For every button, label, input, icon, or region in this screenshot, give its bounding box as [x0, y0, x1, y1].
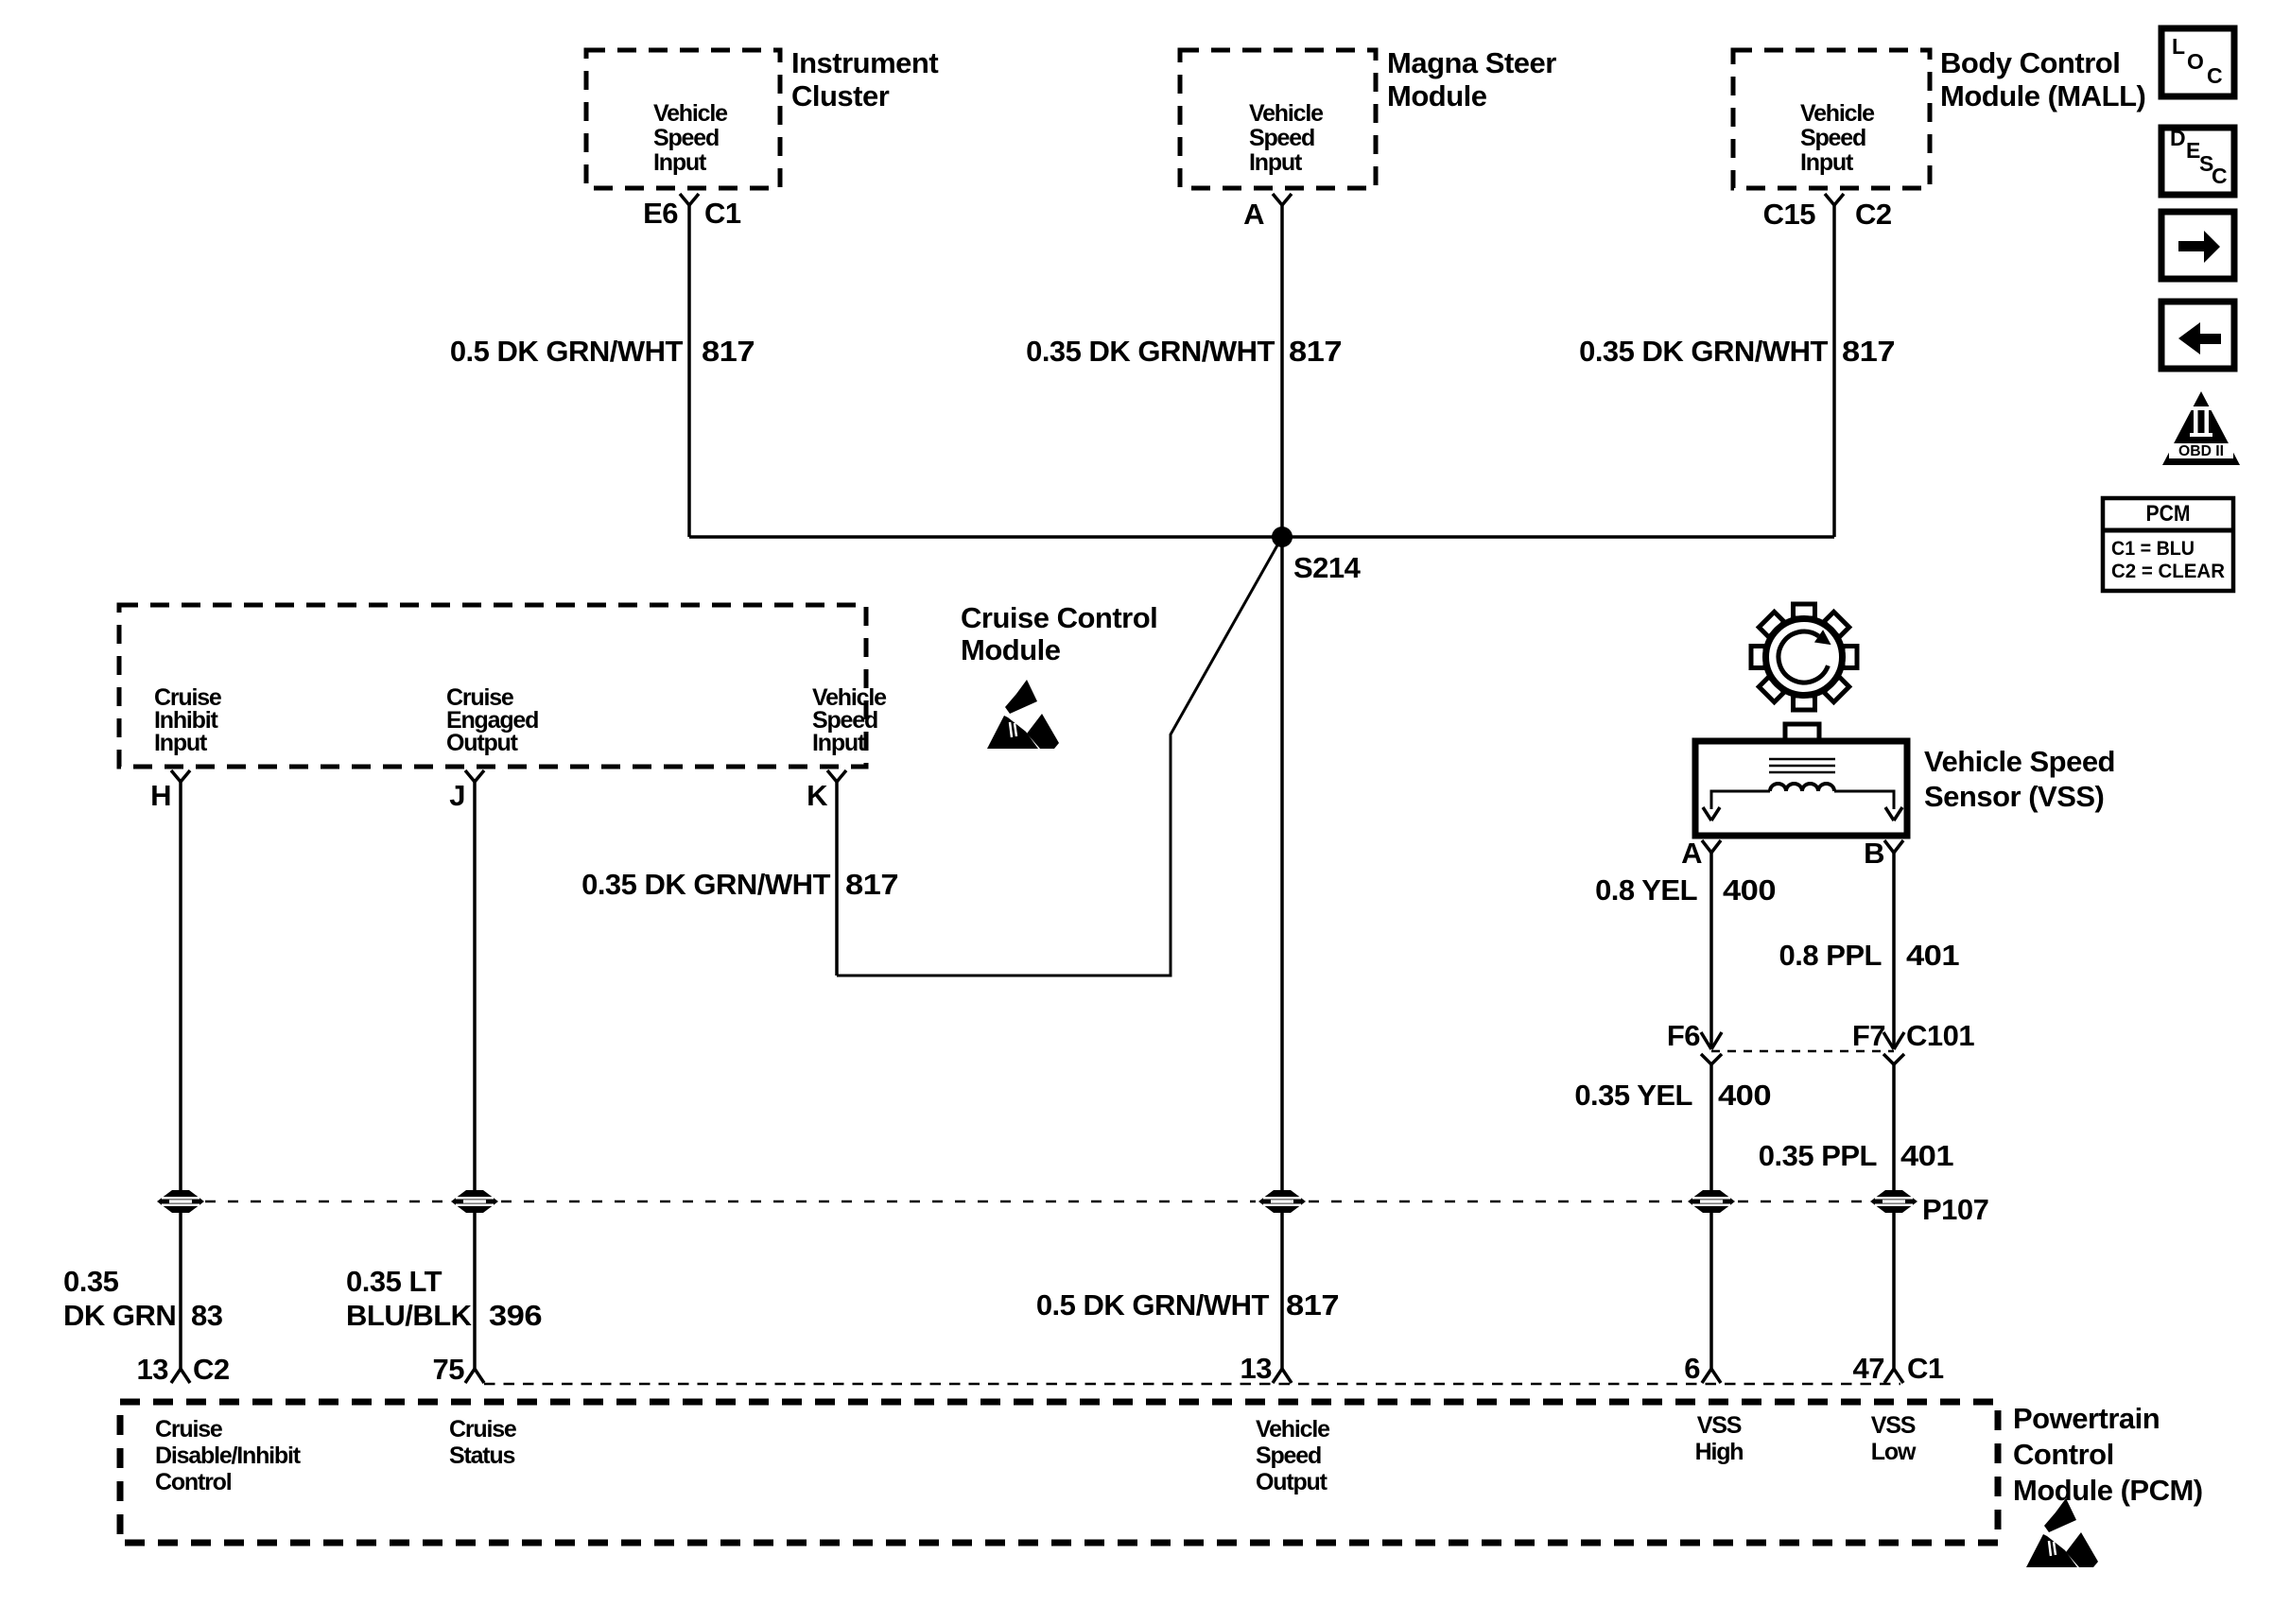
- VSS lead A arrowhead: [1703, 807, 1720, 821]
- svg-text:Input: Input: [154, 730, 208, 756]
- svg-text:A: A: [1243, 198, 1264, 231]
- VSS sensor box: [1695, 741, 1907, 836]
- svg-text:Speed: Speed: [653, 125, 719, 151]
- icon OBD II triangle: [2162, 391, 2240, 465]
- svg-text:C2: C2: [193, 1353, 230, 1386]
- wire 817 from Instrument Cluster E6: [687, 205, 691, 537]
- grommet P107 at 401 wire: [1870, 1190, 1917, 1213]
- pin Y connector C15 C2: [1825, 194, 1844, 205]
- svg-text:Input: Input: [653, 149, 707, 176]
- pin Y connector H: [171, 770, 190, 782]
- svg-text:Vehicle: Vehicle: [1800, 100, 1875, 127]
- VSS core lines: [1769, 759, 1835, 772]
- svg-text:Speed: Speed: [1800, 125, 1865, 151]
- wire 396 cruise J to PCM 75: [473, 782, 477, 1369]
- VSS lead A: [1711, 791, 1770, 809]
- connector P107 dashed line: [205, 1201, 448, 1203]
- wire 817 main vertical to PCM pin 13: [1280, 537, 1284, 1369]
- svg-text:Input: Input: [1249, 149, 1303, 176]
- svg-text:817: 817: [1842, 335, 1895, 368]
- svg-text:Control: Control: [2013, 1438, 2114, 1471]
- module box Body Control Module: [1733, 50, 1930, 188]
- VSS stem: [1785, 724, 1819, 743]
- svg-text:A: A: [1681, 837, 1702, 870]
- grommet P107 at H wire: [157, 1190, 204, 1213]
- svg-text:C2: C2: [1855, 198, 1892, 231]
- svg-text:Disable/Inhibit: Disable/Inhibit: [155, 1443, 302, 1469]
- pin Y connector VSS B: [1884, 840, 1903, 853]
- svg-text:Module: Module: [1387, 79, 1487, 112]
- svg-text:817: 817: [1289, 335, 1342, 368]
- svg-text:0.35 DK GRN/WHT: 0.35 DK GRN/WHT: [1579, 335, 1828, 368]
- svg-text:B: B: [1864, 837, 1884, 870]
- C101 F7 male arrow: [1883, 1032, 1904, 1049]
- module box Magna Steer Module: [1180, 50, 1376, 188]
- grommet P107 at 817 wire: [1258, 1190, 1306, 1213]
- svg-text:Input: Input: [1800, 149, 1854, 176]
- svg-text:0.5 DK GRN/WHT: 0.5 DK GRN/WHT: [450, 335, 684, 368]
- svg-text:Magna Steer: Magna Steer: [1387, 46, 1556, 79]
- pin Y connector K: [827, 770, 846, 782]
- svg-text:0.35: 0.35: [63, 1265, 119, 1298]
- PCM pin 6 connector: [1702, 1369, 1721, 1383]
- svg-text:0.8 PPL: 0.8 PPL: [1779, 939, 1883, 972]
- svg-text:75: 75: [433, 1353, 465, 1386]
- VSS lead B arrowhead: [1885, 807, 1902, 821]
- svg-text:Cruise: Cruise: [155, 1416, 223, 1443]
- PCM pin 75 connector: [465, 1369, 484, 1383]
- svg-text:VSS: VSS: [1697, 1412, 1742, 1439]
- svg-text:DK GRN: DK GRN: [63, 1299, 176, 1332]
- svg-text:Low: Low: [1871, 1439, 1917, 1465]
- svg-text:Speed: Speed: [1249, 125, 1314, 151]
- svg-text:C1: C1: [704, 197, 741, 230]
- svg-text:401: 401: [1906, 939, 1959, 972]
- svg-text:Body Control: Body Control: [1940, 46, 2120, 79]
- svg-text:47: 47: [1853, 1352, 1884, 1385]
- svg-text:817: 817: [845, 868, 898, 901]
- svg-text:O: O: [2187, 49, 2204, 74]
- module box Powertrain Control Module PCM: [120, 1402, 1998, 1543]
- svg-text:0.35 DK GRN/WHT: 0.35 DK GRN/WHT: [1026, 335, 1275, 368]
- icon box LOC: [2161, 28, 2234, 96]
- svg-text:J: J: [449, 779, 465, 812]
- wire 400 VSS A lower: [1709, 1064, 1713, 1369]
- svg-text:817: 817: [1286, 1288, 1339, 1322]
- svg-text:Status: Status: [449, 1443, 515, 1469]
- PCM connector dashed line: [484, 1383, 1900, 1386]
- svg-text:Cruise: Cruise: [449, 1416, 517, 1443]
- svg-text:Output: Output: [446, 730, 519, 756]
- wire 817 horizontal bus: [689, 535, 1834, 539]
- svg-text:0.35 LT: 0.35 LT: [346, 1265, 442, 1298]
- svg-text:0.8 YEL: 0.8 YEL: [1595, 873, 1697, 907]
- svg-text:Cruise Control: Cruise Control: [961, 601, 1157, 634]
- splice S214: [1272, 527, 1293, 547]
- wire 83 cruise H to PCM 13 C2: [179, 782, 182, 1369]
- wire 400 VSS A upper: [1709, 853, 1713, 1049]
- svg-text:Module (PCM): Module (PCM): [2013, 1474, 2203, 1507]
- svg-text:83: 83: [191, 1299, 223, 1332]
- svg-text:400: 400: [1718, 1079, 1771, 1112]
- VSS coil: [1770, 784, 1834, 791]
- svg-text:Vehicle: Vehicle: [653, 100, 728, 127]
- svg-text:396: 396: [489, 1299, 542, 1332]
- C101 F6 female cup: [1701, 1054, 1722, 1064]
- pin Y connector A magna: [1273, 194, 1292, 205]
- svg-text:Vehicle: Vehicle: [1256, 1416, 1330, 1443]
- svg-text:OBD II: OBD II: [2178, 443, 2224, 459]
- svg-text:F6: F6: [1667, 1019, 1700, 1052]
- grommet P107 at 400 wire: [1688, 1190, 1735, 1213]
- svg-text:High: High: [1695, 1439, 1744, 1465]
- wire 817 from Magna Steer A: [1280, 205, 1284, 537]
- ESD symbol PCM: [2026, 1498, 2098, 1567]
- wire 817 from BCM C15: [1832, 205, 1836, 537]
- grommet P107 at J wire: [451, 1190, 498, 1213]
- connector C101 dashed line: [1711, 1050, 1894, 1053]
- wire 817 cruise K: [835, 782, 839, 976]
- svg-text:6: 6: [1684, 1352, 1700, 1385]
- svg-text:Cluster: Cluster: [791, 79, 890, 112]
- svg-text:C1 = BLU: C1 = BLU: [2111, 538, 2195, 560]
- icon box arrow right: [2161, 212, 2234, 279]
- VSS gear wheel: [1751, 604, 1857, 710]
- svg-text:13: 13: [1241, 1352, 1273, 1385]
- svg-text:K: K: [807, 779, 828, 812]
- svg-text:817: 817: [702, 335, 755, 368]
- PCM pin 13 C2 connector: [171, 1369, 190, 1383]
- svg-text:C1: C1: [1907, 1352, 1944, 1385]
- svg-text:Vehicle: Vehicle: [1249, 100, 1324, 127]
- icon box DESC: [2161, 128, 2234, 195]
- svg-text:401: 401: [1900, 1139, 1953, 1172]
- svg-text:BLU/BLK: BLU/BLK: [346, 1299, 473, 1332]
- svg-text:C2 = CLEAR: C2 = CLEAR: [2111, 561, 2225, 582]
- svg-text:E6: E6: [643, 197, 678, 230]
- svg-text:PCM: PCM: [2146, 501, 2191, 527]
- svg-text:C101: C101: [1906, 1019, 1974, 1052]
- svg-text:VSS: VSS: [1871, 1412, 1916, 1439]
- svg-text:Input: Input: [812, 730, 866, 756]
- svg-text:D: D: [2170, 126, 2186, 150]
- svg-text:0.35 YEL: 0.35 YEL: [1574, 1079, 1692, 1112]
- svg-text:C15: C15: [1763, 198, 1816, 231]
- svg-text:Module: Module: [961, 633, 1061, 666]
- wire 401 VSS B upper: [1892, 853, 1896, 1049]
- svg-text:P107: P107: [1922, 1193, 1988, 1226]
- svg-text:Powertrain: Powertrain: [2013, 1402, 2160, 1435]
- svg-text:L: L: [2172, 34, 2185, 59]
- module box Cruise Control Module: [119, 605, 866, 767]
- svg-text:C: C: [2212, 164, 2228, 188]
- svg-text:Instrument: Instrument: [791, 46, 938, 79]
- svg-text:0.35 PPL: 0.35 PPL: [1759, 1139, 1877, 1172]
- ESD symbol cruise control: [987, 680, 1059, 749]
- svg-text:0.35 DK GRN/WHT: 0.35 DK GRN/WHT: [581, 868, 830, 901]
- module box Instrument Cluster: [586, 50, 780, 188]
- svg-text:Vehicle Speed: Vehicle Speed: [1924, 745, 2115, 778]
- wire 401 VSS B lower: [1892, 1064, 1896, 1369]
- PCM pin 13 connector: [1273, 1369, 1292, 1383]
- svg-text:Speed: Speed: [1256, 1443, 1321, 1469]
- pin Y connector VSS A: [1702, 840, 1721, 853]
- svg-text:400: 400: [1723, 873, 1776, 907]
- pin Y connector E6 C1: [680, 194, 699, 205]
- svg-text:Module (MALL): Module (MALL): [1940, 79, 2145, 112]
- icon box arrow left: [2161, 302, 2234, 369]
- svg-text:13: 13: [137, 1353, 169, 1386]
- svg-text:C: C: [2207, 63, 2223, 88]
- C101 F6 male arrow: [1701, 1032, 1722, 1049]
- svg-text:H: H: [150, 779, 171, 812]
- PCM pin 47 C1 connector: [1884, 1369, 1903, 1383]
- svg-text:S214: S214: [1293, 551, 1362, 584]
- legend box PCM connectors: [2103, 498, 2233, 591]
- svg-text:0.5 DK GRN/WHT: 0.5 DK GRN/WHT: [1036, 1288, 1270, 1322]
- C101 F7 female cup: [1883, 1054, 1904, 1064]
- svg-text:Control: Control: [155, 1469, 232, 1495]
- wire 817 branch S214 to cruise K: [837, 537, 1282, 976]
- svg-text:Output: Output: [1256, 1469, 1328, 1495]
- pin Y connector J: [465, 770, 484, 782]
- svg-text:Sensor (VSS): Sensor (VSS): [1924, 780, 2104, 813]
- VSS lead B: [1834, 791, 1894, 809]
- svg-text:F7: F7: [1852, 1019, 1885, 1052]
